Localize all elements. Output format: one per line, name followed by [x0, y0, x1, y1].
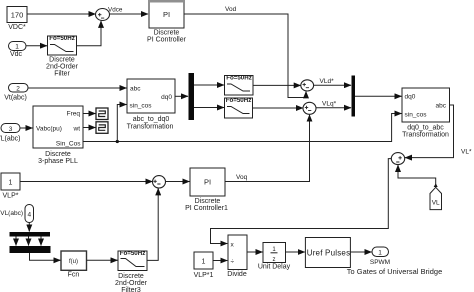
svg-text:f(u): f(u) — [69, 259, 78, 265]
wire filter to sum bottom — [77, 21, 102, 46]
sum junction VLd — [301, 80, 314, 91]
svg-text:sin_cos: sin_cos — [405, 112, 428, 119]
wire filter q to sum VLq — [253, 107, 303, 109]
wire sum to PI1 — [166, 181, 190, 183]
wire demux to filter d — [194, 84, 224, 86]
svg-text:VLd*: VLd* — [320, 78, 335, 85]
wire sum to PI with node label Vdce — [110, 13, 149, 15]
svg-text:Fo=50Hz: Fo=50Hz — [226, 97, 252, 104]
wire sum VLq to mux, node VLq* — [316, 107, 351, 109]
svg-text:To Gates of Universal Bridge: To Gates of Universal Bridge — [347, 267, 442, 276]
inport 1 Vdc — [9, 42, 27, 59]
wire VLP*1 to Divide — [213, 260, 227, 262]
svg-text:sin_cos: sin_cos — [130, 103, 153, 110]
svg-text:Discrete: Discrete — [154, 30, 180, 37]
block Fcn f(u) — [61, 251, 87, 279]
demux bar — [189, 73, 195, 120]
wire PI1 output Voq to sum VLq bottom — [225, 115, 310, 182]
svg-text:PI Controller: PI Controller — [147, 37, 187, 44]
svg-text:Filter3: Filter3 — [121, 287, 141, 292]
svg-text:PI Controller1: PI Controller1 — [185, 205, 228, 212]
block Discrete 2nd-Order Filter — [46, 35, 79, 78]
constant block VDC* (170) — [7, 7, 27, 32]
svg-text:1: 1 — [378, 250, 382, 257]
svg-text:VLP*1: VLP*1 — [194, 272, 214, 279]
wire VDC* to sum Vdc — [27, 13, 96, 15]
svg-text:Uref Pulses: Uref Pulses — [307, 248, 351, 257]
wire PLL Sin_Cos trunk to dq0_to_abc sin_cos — [83, 114, 402, 142]
svg-text:Vabc(pu): Vabc(pu) — [36, 126, 62, 133]
block Divide — [227, 235, 247, 278]
wire inport4 down to demux bar — [28, 223, 30, 232]
svg-text:abc_to_dq0: abc_to_dq0 — [133, 116, 170, 123]
svg-text:Unit Delay: Unit Delay — [258, 264, 291, 271]
sum junction VLq — [303, 102, 316, 114]
wire sum VL output to Divide X input — [211, 159, 392, 244]
constant block VLP* — [1, 173, 20, 200]
From tag VL — [430, 183, 442, 209]
wire PLL wt to scope2 — [83, 127, 96, 129]
svg-text:Discrete: Discrete — [49, 57, 75, 64]
svg-text:Discrete: Discrete — [118, 273, 144, 280]
svg-text:wt: wt — [73, 126, 81, 133]
wire inport3 to PLL — [20, 127, 33, 129]
wire Fcn to filter3 — [87, 259, 118, 261]
svg-text:Transformation: Transformation — [127, 124, 174, 131]
svg-text:Freq: Freq — [67, 111, 81, 118]
block Discrete 2nd-Order Filter3 — [115, 250, 148, 292]
svg-text:abc: abc — [436, 103, 447, 110]
svg-text:3: 3 — [9, 126, 13, 133]
svg-text:VL: VL — [432, 200, 440, 207]
block abc_to_dq0 Transformation — [127, 79, 175, 131]
svg-text:VL(abc): VL(abc) — [0, 136, 21, 143]
svg-text:Vdce: Vdce — [108, 7, 123, 14]
svg-text:2nd-Order: 2nd-Order — [115, 280, 148, 287]
wire PI output Vod to sum VLd bottom — [184, 14, 306, 98]
svg-text:1: 1 — [202, 259, 206, 266]
mux bar horizontal — [10, 246, 51, 253]
svg-text:Vt(abc): Vt(abc) — [4, 95, 27, 102]
sum junction VL error — [391, 153, 404, 165]
wire abc out to sum VL, node VL* — [405, 105, 454, 158]
block Discrete PI Controller1 — [185, 168, 228, 212]
wire VL tag to sum bottom — [398, 165, 436, 186]
svg-text:dq0: dq0 — [405, 94, 416, 101]
sum junction VLP error — [153, 176, 166, 188]
svg-text:Fo=50Hz: Fo=50Hz — [120, 250, 146, 257]
block filter d (Fo=50Hz) — [225, 75, 254, 96]
svg-text:170: 170 — [11, 11, 24, 20]
wire mux to dq0_to_abc — [355, 95, 402, 97]
svg-text:Fo=50Hz: Fo=50Hz — [49, 35, 75, 42]
block filter q (Fo=50Hz) — [225, 97, 253, 118]
svg-text:VLq*: VLq* — [322, 101, 337, 108]
block Discrete 3-phase PLL — [33, 106, 83, 165]
sum junction Vdc error — [96, 9, 110, 21]
svg-text:Discrete: Discrete — [45, 151, 71, 158]
wire sum VLd to mux, node VLd* — [314, 84, 351, 86]
svg-text:2: 2 — [16, 86, 20, 93]
svg-text:Transformation: Transformation — [402, 132, 449, 139]
junction node on Sin_Cos wire — [116, 140, 119, 143]
block Unit Delay — [258, 243, 291, 271]
wire demux phase c — [40, 237, 42, 246]
svg-text:Fo=50Hz: Fo=50Hz — [226, 75, 252, 82]
svg-text:Divide: Divide — [227, 271, 247, 278]
svg-text:4: 4 — [27, 212, 31, 219]
svg-text:SPWM: SPWM — [370, 259, 390, 266]
wire PLL Freq to scope1 — [83, 113, 96, 115]
wire filter3 up to sum bottom — [147, 188, 158, 260]
outport 1 SPWM — [347, 247, 442, 276]
svg-text:PI: PI — [204, 178, 211, 187]
scope block 1 — [96, 108, 108, 120]
wire mux to Fcn — [30, 253, 61, 260]
inport 2 Vt(abc) — [4, 84, 28, 102]
svg-text:z: z — [273, 257, 276, 263]
svg-text:3-phase PLL: 3-phase PLL — [38, 158, 78, 165]
scope block 2 — [96, 122, 108, 134]
wire demux phase b — [28, 237, 30, 246]
svg-text:2nd-Order: 2nd-Order — [46, 64, 79, 71]
wire filter d to sum VLd — [253, 84, 301, 86]
svg-text:abc: abc — [130, 86, 141, 93]
wire VLP* to sum — [20, 181, 152, 183]
wire branch Sin_Cos to abc_to_dq0 — [117, 105, 126, 142]
svg-text:Fcn: Fcn — [68, 272, 80, 279]
block Discrete PI Controller — [147, 0, 187, 44]
svg-text:÷: ÷ — [231, 259, 235, 266]
block Uref Pulses — [305, 238, 350, 268]
svg-text:Sin_Cos: Sin_Cos — [56, 141, 81, 148]
mux bar — [352, 76, 356, 117]
wire Vdc to filter — [26, 45, 47, 47]
svg-text:1: 1 — [15, 44, 19, 51]
wire dq0 out to demux — [175, 95, 188, 97]
svg-text:VLP*: VLP* — [3, 193, 19, 200]
svg-text:VL*: VL* — [461, 149, 472, 156]
svg-text:1: 1 — [9, 180, 13, 187]
constant block VLP*1 — [194, 252, 214, 279]
svg-text:dq0_to_abc: dq0_to_abc — [407, 125, 444, 132]
svg-text:Vod: Vod — [225, 6, 237, 13]
svg-text:VDC*: VDC* — [8, 24, 26, 31]
wire Vt(abc) to abc_to_dq0 — [28, 87, 127, 89]
wire Divide to Unit Delay — [247, 251, 263, 253]
svg-text:Discrete: Discrete — [195, 198, 221, 205]
wire demux to filter q — [194, 107, 224, 109]
wire demux phase a — [15, 237, 17, 246]
wire Unit Delay to Uref Pulses — [286, 251, 305, 253]
demux bar horizontal — [10, 232, 51, 237]
svg-text:Filter: Filter — [54, 71, 70, 78]
svg-text:VL(abc): VL(abc) — [0, 210, 23, 217]
inport 3 VL(abc) — [0, 124, 21, 143]
svg-text:dq0: dq0 — [161, 94, 172, 101]
svg-text:Voq: Voq — [236, 174, 248, 181]
inport 4 VL(abc) — [0, 205, 33, 223]
block dq0_to_abc Transformation — [402, 88, 450, 139]
svg-text:PI: PI — [163, 10, 170, 19]
wire Uref Pulses to outport — [351, 251, 372, 253]
svg-text:Vdc: Vdc — [10, 51, 23, 58]
